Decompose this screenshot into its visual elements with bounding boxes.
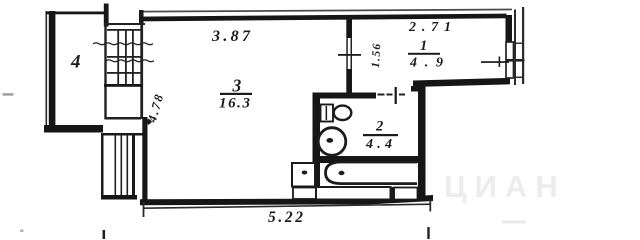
- svg-text:4.4: 4.4: [365, 137, 392, 152]
- svg-text:3.87: 3.87: [211, 28, 251, 45]
- svg-text:4.9: 4.9: [409, 56, 443, 71]
- svg-text:2: 2: [375, 119, 383, 135]
- svg-text:ЦИАН: ЦИАН: [444, 169, 566, 204]
- svg-text:1.56: 1.56: [370, 43, 383, 68]
- svg-text:5.22: 5.22: [268, 209, 303, 226]
- svg-text:16.3: 16.3: [219, 96, 251, 112]
- svg-text:3: 3: [232, 76, 242, 96]
- svg-text:1: 1: [420, 38, 427, 54]
- svg-text:4: 4: [70, 52, 81, 73]
